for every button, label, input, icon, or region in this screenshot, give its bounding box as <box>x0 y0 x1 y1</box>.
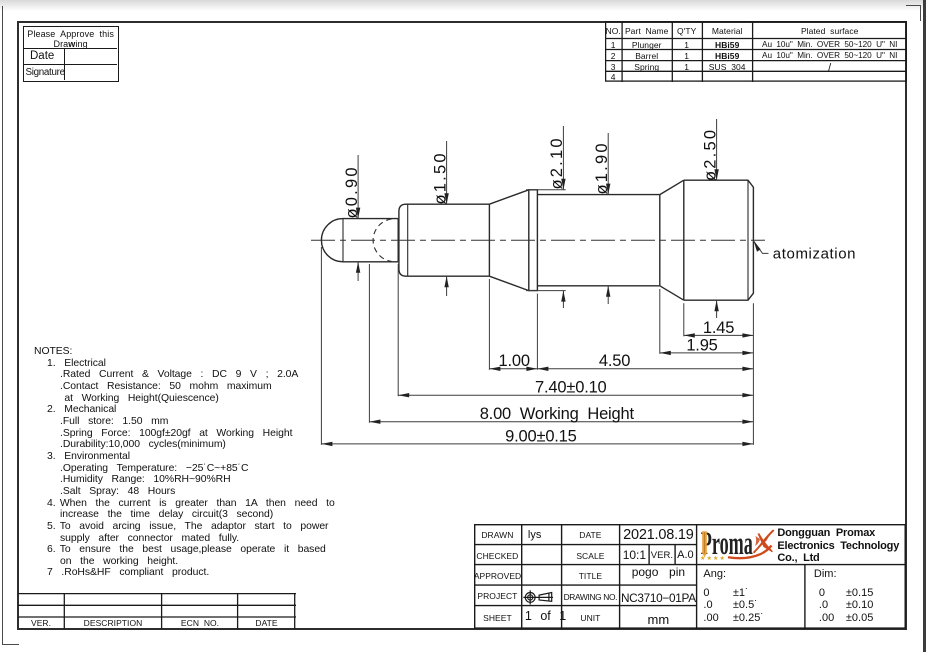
svg-text:4.50: 4.50 <box>599 352 630 370</box>
svg-text:9.00±0.15: 9.00±0.15 <box>505 427 577 445</box>
row 4 <box>605 72 622 82</box>
tail flange chamfer tangent line <box>747 180 749 300</box>
logo swoosh underline <box>728 545 772 558</box>
arrows dia 2.50 <box>714 169 718 180</box>
o2.10 dim line bottom <box>562 291 564 308</box>
col3 labels <box>562 530 619 540</box>
svg-text:ø0.90: ø0.90 <box>343 165 361 218</box>
svg-text:1.00: 1.00 <box>499 352 530 370</box>
header row <box>605 26 622 36</box>
dimension line 8.00 <box>369 421 753 423</box>
Ang tolerances <box>703 568 726 580</box>
approval box top-left <box>23 26 119 82</box>
plunger tip tangent line <box>342 219 344 262</box>
arrows dim 7.40 <box>398 393 409 397</box>
logo X phoenix <box>754 529 773 552</box>
svg-text:1.95: 1.95 <box>686 336 717 354</box>
svg-text:ø1.50: ø1.50 <box>431 151 449 204</box>
sheet right dark edge band <box>923 0 926 652</box>
arrows dia 2.10 <box>561 179 565 190</box>
parts table top-right <box>605 21 907 81</box>
svg-text:ø1.90: ø1.90 <box>593 141 611 194</box>
revision table bottom-left <box>18 593 296 629</box>
o2.10 dim line top <box>562 126 564 190</box>
sheet left edge line <box>2 6 3 645</box>
atomization leader <box>754 241 769 253</box>
svg-text:ø2.50: ø2.50 <box>701 128 719 181</box>
logo stars <box>700 555 725 562</box>
dimension line 9.00 <box>321 443 753 445</box>
barrel body o1.90 <box>537 195 659 286</box>
dimension line 1.00 / 4.50 <box>489 368 753 370</box>
col2 values <box>528 529 561 541</box>
dimension texts <box>343 128 856 446</box>
arrows dim 1.45 <box>684 333 695 337</box>
o1.90 dim line top <box>607 133 609 195</box>
o2.50 dim line bottom <box>716 300 718 318</box>
sheet top shadow gradient <box>0 0 926 11</box>
plunger shaft o0.90 <box>343 219 398 262</box>
col4 values <box>620 527 697 543</box>
extension line cone start <box>488 279 490 370</box>
notes <box>34 346 364 579</box>
arrows dia 1.90 <box>606 184 610 195</box>
o2.10 top extension <box>526 189 566 191</box>
svg-text:★: ★ <box>713 555 718 562</box>
left labels <box>474 530 521 540</box>
tail flange o2.50 <box>684 180 754 300</box>
arrows dim 1.00 <box>489 367 500 371</box>
o2.10 bottom extension <box>526 290 566 292</box>
o1.90 dim line bottom <box>607 286 609 304</box>
o0.90 dim line bottom <box>357 262 359 281</box>
row 2 barrel <box>605 51 622 61</box>
barrel front taper <box>489 190 528 291</box>
o1.50 dim line top <box>446 141 448 204</box>
plunger tip spherical end <box>321 219 343 262</box>
dimension line 7.40 <box>398 394 753 396</box>
row 1 plunger <box>605 40 622 50</box>
extension line right face <box>752 303 754 445</box>
extension line tail flange left <box>683 303 685 336</box>
svg-text:8.00 Working Height: 8.00 Working Height <box>480 405 635 423</box>
svg-text:★: ★ <box>719 555 724 562</box>
plunger collar o1.50 <box>399 204 490 276</box>
arrows dia 0.90 <box>356 208 360 219</box>
extension line 8.00 left <box>368 264 370 423</box>
svg-text:ø2.10: ø2.10 <box>548 136 566 189</box>
arrows dim 8.00 <box>369 420 380 424</box>
collar end-face tangent line <box>407 204 409 276</box>
company name <box>777 527 907 564</box>
barrel rear taper <box>660 180 684 300</box>
hidden arc inside plunger <box>373 219 391 261</box>
extension line barrel end <box>659 289 661 354</box>
sheet bottom-left corner mark <box>2 644 19 645</box>
projection symbol <box>523 590 553 604</box>
svg-text:★: ★ <box>700 555 705 562</box>
svg-text:atomization: atomization <box>773 246 856 263</box>
Promax logo <box>700 526 774 562</box>
Signature row <box>24 65 65 80</box>
svg-text:★: ★ <box>706 555 711 562</box>
arrows dim 9.00 <box>321 442 332 446</box>
barrel flange ring o2.10 <box>529 190 538 291</box>
o0.90 dim line top <box>357 155 359 219</box>
Dim tolerances <box>814 568 837 580</box>
arrows dim 1.95 <box>660 351 671 355</box>
Date row <box>24 49 65 65</box>
dimension line 1.45 <box>684 334 754 336</box>
row 3 spring <box>605 62 622 72</box>
o1.50 dim line bottom <box>446 276 448 296</box>
o2.50 dim line top <box>716 119 718 180</box>
svg-text:1.45: 1.45 <box>703 319 734 337</box>
extension line barrel start <box>536 294 538 370</box>
leader arrowhead <box>754 241 761 252</box>
arrows dim 4.50 <box>537 367 548 371</box>
extension line 9.00 left <box>320 247 322 445</box>
sheet top-right corner mark <box>906 5 921 6</box>
title block bottom-right <box>474 524 906 629</box>
header: Please Approve this Drawing <box>24 27 117 49</box>
arrows dia 1.50 <box>444 193 448 204</box>
extension line 7.40 left (plunger face) <box>397 264 399 396</box>
center axis line <box>311 239 765 241</box>
dimension line 1.95 <box>660 352 754 354</box>
svg-text:7.40±0.10: 7.40±0.10 <box>535 379 607 397</box>
